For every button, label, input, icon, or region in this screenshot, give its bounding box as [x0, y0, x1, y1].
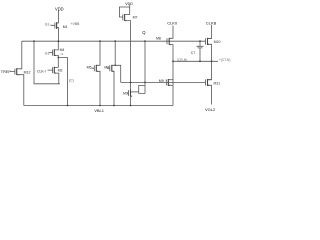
arrow on M11 source — [208, 85, 210, 87]
svg-text:M11: M11 — [214, 81, 221, 85]
junction node Q — [144, 40, 146, 42]
junction mid rail at C7 — [199, 60, 201, 62]
wire VSS bottom rail — [24, 105, 173, 107]
svg-text:C7: C7 — [191, 51, 196, 55]
svg-text:VBL1: VBL1 — [94, 108, 105, 113]
arrow on M8 source — [169, 44, 171, 46]
svg-text:x1: x1 — [60, 52, 64, 56]
capacitor C7 leads — [199, 41, 201, 61]
transistor M1 channel — [56, 22, 58, 29]
junction on bus at M5 — [99, 40, 101, 42]
svg-text:G1-: G1- — [45, 22, 51, 26]
wire VDD to M7 — [125, 5, 130, 15]
wire Z-route bus to M2 source — [34, 41, 60, 84]
transistor M4 channel — [53, 49, 55, 56]
wire M2 source down — [54, 73, 59, 84]
wire M12 source to bottom rail — [17, 75, 24, 106]
transistor M3 channel — [130, 90, 132, 97]
arrow on M1 source — [57, 27, 59, 29]
wire M10 source down to M11 drain — [208, 44, 212, 79]
wire M3 drain stub — [131, 91, 139, 93]
transistor M5 channel — [95, 65, 97, 72]
junction bottom rail at M6 — [113, 105, 115, 107]
wire M9 source lead — [168, 84, 173, 86]
svg-text:VDD: VDD — [55, 6, 64, 11]
svg-text:Q: Q — [142, 30, 146, 35]
wire M4 source to node A — [54, 55, 58, 57]
junction on bus at M6 — [114, 40, 116, 42]
arrow on M6 source — [112, 71, 114, 73]
junction mid rail at M10 source — [211, 60, 213, 62]
wire M6 source down to bottom rail — [112, 71, 114, 105]
transistor M9 — [165, 79, 167, 85]
junction gate rail at node Q wire — [144, 82, 146, 84]
svg-text:M10: M10 — [214, 40, 221, 44]
arrow on M5 source — [96, 71, 98, 73]
svg-text:M12: M12 — [24, 70, 31, 74]
wire M7 source down to M3 drain — [125, 21, 131, 90]
svg-text:M7: M7 — [133, 16, 138, 20]
transistor M11 channel — [207, 79, 209, 86]
arrow on M3 source — [131, 95, 133, 97]
transistor M8 channel — [168, 38, 170, 45]
svg-text:CLKB: CLKB — [206, 20, 217, 25]
transistor M6 — [107, 65, 110, 71]
svg-text:M9: M9 — [159, 79, 164, 83]
svg-text:CLK-I: CLK-I — [37, 70, 46, 74]
svg-text:VDD: VDD — [125, 2, 133, 6]
wire M7 gate loop — [119, 7, 129, 17]
transistor M6 channel — [111, 65, 113, 72]
junction bottom rail at M3 — [130, 105, 132, 107]
junction on bus at M1/M4 — [58, 40, 60, 42]
transistor M10 channel — [207, 38, 209, 45]
svg-text:G1-: G1- — [45, 51, 51, 55]
wire mid-right rail — [173, 60, 218, 62]
wire M9 drain lead — [168, 79, 173, 81]
svg-text:M3: M3 — [123, 91, 128, 95]
junction on bus at Z-wire — [33, 40, 35, 42]
wire M6 drain up to bus — [114, 41, 116, 65]
junction node A — [57, 57, 59, 59]
arrow on M7 source — [125, 20, 127, 22]
transistor M1 — [51, 23, 55, 29]
junction bottom rail at M5 — [99, 105, 101, 107]
arrow on M12 source — [17, 74, 19, 76]
transistor M7 channel — [124, 14, 126, 21]
svg-text:+(CT-N): +(CT-N) — [219, 58, 230, 62]
wire node A right and down to bottom rail — [58, 58, 67, 106]
wire M12 drain to bus — [17, 41, 22, 69]
svg-text:+VBB: +VBB — [71, 22, 81, 26]
wire CLK0 down to M8 drain — [169, 26, 173, 39]
svg-text:M2: M2 — [58, 68, 63, 72]
wire node Q down to M3 loop — [144, 41, 146, 93]
junction bottom rail at node A wire — [67, 105, 69, 107]
junction gate rail at M7 source — [130, 82, 132, 84]
wire M5 drain up to bus — [96, 41, 100, 65]
capacitor C7 plates — [197, 46, 204, 48]
svg-text:TREF: TREF — [1, 70, 12, 74]
wire M5 source down to bottom rail — [96, 71, 100, 105]
arrow on M4 source — [54, 55, 56, 57]
wire VDD to M1 — [57, 11, 59, 24]
junction on bus at C7 — [199, 40, 201, 42]
transistor M2 — [48, 67, 53, 73]
transistor M12 — [10, 69, 15, 75]
wire M1 source down to bus — [57, 28, 59, 42]
svg-text:M1: M1 — [63, 25, 68, 29]
transistor M11 — [206, 79, 212, 85]
transistor M9 channel — [167, 79, 169, 86]
wire lower gate rail — [121, 81, 206, 83]
wire M8 source down through rails to bottom rail — [169, 45, 173, 106]
arrow on M9 source — [168, 85, 170, 87]
node Q bus (top horizontal rail) — [22, 40, 206, 42]
transistor M8 — [166, 38, 168, 44]
junction mid rail at M8 source — [172, 60, 174, 62]
wire M4 drain to bus — [54, 41, 58, 50]
svg-text:VGL2: VGL2 — [205, 107, 216, 112]
wire M3 source down to bottom rail — [130, 96, 132, 105]
transistor M4 — [49, 50, 53, 56]
svg-text:M6: M6 — [104, 66, 109, 70]
arrow on M10 source — [208, 44, 210, 46]
wire CLKB down to M10 drain — [208, 25, 212, 39]
arrow on M2 source — [54, 72, 56, 74]
transistor M7 — [122, 14, 124, 20]
svg-text:M8: M8 — [156, 37, 161, 41]
wire M11 source down to VGL2 — [208, 85, 212, 104]
wire M3 loop rectangle — [139, 85, 145, 93]
transistor M10 — [206, 38, 212, 44]
transistor M12 channel — [16, 68, 18, 75]
svg-text:(CR-N): (CR-N) — [177, 58, 187, 62]
junction M6 loop — [114, 65, 116, 67]
transistor M5 — [92, 65, 95, 71]
wire M6 drain loop down to gate rail — [112, 65, 121, 82]
transistor M3 — [127, 90, 129, 96]
transistor M2 channel — [53, 67, 55, 74]
svg-text:(C): (C) — [69, 79, 74, 83]
wire node A to M2 drain — [54, 58, 58, 68]
svg-text:M5: M5 — [87, 66, 92, 70]
svg-text:CLK0: CLK0 — [167, 21, 178, 26]
